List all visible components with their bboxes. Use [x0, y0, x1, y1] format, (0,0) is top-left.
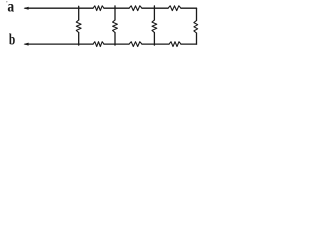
resistor R7 (shunt 1): [76, 20, 81, 33]
resistor R2 (top series): [129, 6, 142, 11]
terminal b arrowhead: [24, 43, 29, 46]
resistor R8 (shunt 2): [113, 20, 118, 33]
resistor R10 (shunt 4, right end): [194, 21, 198, 34]
wire shunt 3 bottom lead: [153, 33, 155, 46]
wire top rail R3 to right corner: [181, 7, 197, 9]
wire bottom rail R6 to right corner: [181, 43, 197, 45]
wire top rail R2 to R3: [142, 7, 168, 9]
terminal a arrowhead: [24, 7, 29, 10]
wire shunt 4 bottom lead: [196, 33, 198, 44]
svg-text:b: b: [9, 31, 16, 48]
wire shunt 1 bottom lead: [78, 33, 80, 46]
resistor R3 (top series): [168, 6, 181, 11]
wire top rail R1 to R2: [104, 7, 129, 9]
resistor R1 (top series): [93, 6, 104, 11]
wire shunt 1 top lead (junction overshoot): [78, 6, 80, 20]
wire shunt 2 bottom lead: [114, 33, 116, 46]
wire top rail a to R1: [25, 7, 93, 9]
wire shunt 2 top lead (junction overshoot): [114, 6, 116, 20]
svg-text:a: a: [7, 0, 14, 16]
resistor R5 (bottom series): [129, 42, 142, 47]
wire bottom rail R5 to R6: [142, 43, 169, 45]
wire bottom rail R4 to R5: [104, 43, 129, 45]
resistor R9 (shunt 3): [152, 20, 157, 33]
wire shunt 4 top lead (right end): [196, 8, 198, 20]
resistor R6 (bottom series): [169, 42, 181, 47]
resistor R4 (bottom series): [93, 42, 104, 47]
wire bottom rail b to R4: [25, 43, 93, 45]
wire shunt 3 top lead (junction overshoot): [153, 6, 155, 20]
speck artifact: [6, 1, 7, 2]
